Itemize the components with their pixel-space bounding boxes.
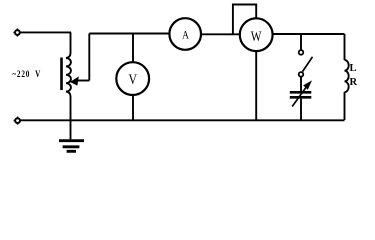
capacitor variable arrowhead <box>303 80 312 89</box>
wire right edge down <box>344 34 346 60</box>
switch S blade <box>303 57 313 72</box>
svg-text:L: L <box>350 63 357 74</box>
wire winding bottom to bottom bus <box>70 97 72 121</box>
svg-text:~220: ~220 <box>12 69 30 79</box>
wattmeter W circle <box>240 18 273 51</box>
wire switch branch top <box>300 34 302 50</box>
ground bar 1 <box>59 139 84 142</box>
wire bottom bus <box>20 119 345 121</box>
wire ammeter to wattmeter <box>201 33 240 35</box>
wire top-left horizontal <box>20 31 71 33</box>
switch S top contact <box>299 50 304 55</box>
capacitor variable arrow shaft <box>292 86 307 107</box>
switch S bottom contact <box>299 72 304 77</box>
inductor L winding <box>345 60 349 92</box>
capacitor C bottom plate <box>290 96 312 99</box>
voltmeter V circle <box>116 62 149 95</box>
terminal bottom-left <box>14 117 20 125</box>
svg-text:V: V <box>35 69 40 79</box>
terminal top-left <box>13 29 19 37</box>
wire wattmeter to right <box>273 33 345 35</box>
autotransformer core bar <box>60 58 63 91</box>
wiper arrow shaft <box>77 80 89 82</box>
svg-text:W: W <box>251 29 262 45</box>
autotransformer T1 winding <box>66 53 71 97</box>
wire inductor bottom <box>344 92 346 120</box>
ammeter A circle <box>169 18 201 50</box>
wire wiper riser <box>88 34 90 81</box>
wire voltmeter bottom branch <box>132 95 134 120</box>
wire switch to capacitor <box>300 77 302 91</box>
wire top bus to ammeter <box>89 33 169 35</box>
svg-text:R: R <box>350 77 358 88</box>
wire down to autotransformer winding top <box>70 32 72 53</box>
svg-text:V: V <box>128 72 137 88</box>
wiper arrowhead <box>70 76 79 85</box>
wire capacitor to bottom bus <box>300 99 302 120</box>
wire ground stem <box>70 120 72 139</box>
wire wattmeter voltage coil to bottom bus <box>255 51 257 120</box>
svg-text:A: A <box>182 29 189 41</box>
wattmeter current-coil loop <box>233 5 256 35</box>
capacitor C top plate <box>290 91 312 94</box>
wire voltmeter top branch <box>132 34 134 63</box>
ground bar 3 <box>67 150 76 153</box>
ground bar 2 <box>63 145 80 148</box>
